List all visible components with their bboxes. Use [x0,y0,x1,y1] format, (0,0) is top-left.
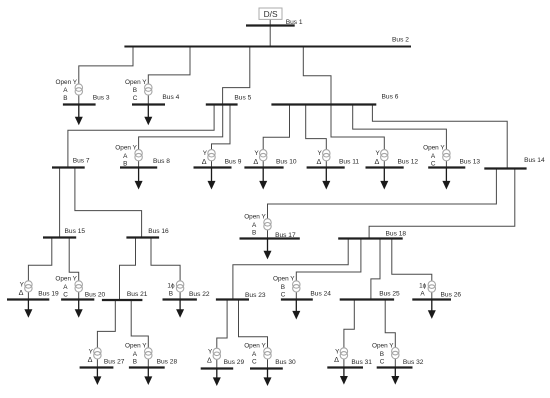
value label 1-phase winding + phase B at Bus 22 [167,283,175,298]
svg-text:Open Y: Open Y [273,276,295,283]
value label Open Y winding + phases AB at Bus 28 [125,343,147,366]
svg-text:B: B [63,95,67,102]
svg-text:Δ: Δ [334,355,339,364]
bus bar Bus 2 [124,46,411,48]
transformer T29 at Bus 29 [213,348,220,359]
bus bar Bus 22 [163,298,197,300]
svg-text:Bus 30: Bus 30 [275,359,296,366]
load arrow at Bus 24 [292,299,300,319]
svg-text:Bus 4: Bus 4 [162,94,179,101]
svg-text:A: A [431,153,436,160]
wire Bus23 to Bus29 [217,299,227,368]
svg-text:Bus 10: Bus 10 [276,159,297,166]
wire Bus25 to Bus31 [344,299,354,367]
svg-text:B: B [169,291,173,298]
wire Bus16 to Bus21 [120,238,136,300]
transformer T3 at Bus 3 [75,84,82,95]
load arrow at Bus 32 [391,367,399,384]
load arrow at Bus 9 [208,168,216,190]
svg-text:Bus 24: Bus 24 [310,290,331,297]
transformer T31 at Bus 31 [340,348,347,359]
svg-text:A: A [63,284,68,291]
transformer T13 at Bus 13 [443,150,450,161]
svg-text:Bus 5: Bus 5 [234,94,251,101]
bus bar Bus 16 [126,236,159,238]
wire Bus21 to Bus28 [131,300,148,368]
load arrow at Bus 29 [213,368,221,386]
wire Bus18 to Bus24 [296,239,361,300]
svg-text:Open Y: Open Y [244,343,266,350]
bus bar Bus 6 [271,103,376,105]
wire Bus5 to Bus7 [68,105,214,168]
bus bar Bus 28 [129,366,165,368]
bus bar Bus 21 [102,299,142,301]
value label Y-Delta winding at Bus 31 [334,348,340,364]
svg-text:Bus 8: Bus 8 [153,158,170,165]
transformer T19 at Bus 19 [25,281,32,292]
svg-text:C: C [133,95,138,102]
svg-text:1ϕ: 1ϕ [419,283,427,290]
load arrow at Bus 8 [135,168,143,190]
svg-text:Bus 1: Bus 1 [286,19,303,26]
bus bar Bus 10 [244,166,283,168]
svg-text:Bus 13: Bus 13 [460,159,481,166]
svg-text:Open Y: Open Y [372,342,394,349]
svg-text:Open Y: Open Y [125,343,147,350]
load arrow at Bus 3 [75,105,83,126]
transformer T22 at Bus 22 [176,281,183,292]
value label Y-Delta winding at Bus 10 [253,150,259,166]
value label Y-Delta winding at Bus 29 [207,349,213,365]
svg-text:Open Y: Open Y [423,145,445,152]
value label Open Y winding + phases AB at Bus 8 [115,145,137,168]
wire Bus15 to Bus20 [69,238,79,300]
wire Bus5 to Bus9 [212,105,231,168]
svg-text:Open Y: Open Y [244,214,266,221]
bus bar Bus 9 [194,166,232,168]
bus bar Bus 23 [216,298,249,300]
svg-text:B: B [380,351,384,358]
svg-text:B: B [133,359,137,366]
svg-text:Bus 3: Bus 3 [93,95,110,102]
transformer T26 at Bus 26 [428,281,435,292]
bus bar Bus 12 [366,166,404,168]
transformer T8 at Bus 8 [135,150,142,161]
svg-text:A: A [63,87,68,94]
bus bar Bus 32 [377,366,413,368]
svg-text:Δ: Δ [202,157,207,166]
wire Bus6 to Bus13 [353,105,447,168]
load arrow at Bus 11 [322,168,330,190]
svg-text:D/S: D/S [264,9,278,19]
wire Bus16 to Bus22 [151,238,180,300]
bus bar Bus 24 [281,298,313,300]
bus bar Bus 15 [43,236,76,238]
svg-text:Bus 7: Bus 7 [73,158,90,165]
value label Open Y winding + phases AC at Bus 30 [244,343,266,366]
transformer T10 at Bus 10 [260,150,267,161]
svg-text:Δ: Δ [19,288,24,297]
transformer T11 at Bus 11 [323,150,330,161]
wire Bus7 to Bus16 [75,168,142,238]
svg-text:Δ: Δ [88,355,93,364]
transformer T32 at Bus 32 [392,348,399,359]
svg-text:C: C [380,358,385,365]
bus bar Bus 25 [340,298,394,300]
wire Bus7 to Bus15 [59,168,61,238]
svg-text:A: A [133,351,138,358]
svg-text:Open Y: Open Y [56,79,78,86]
transformer T28 at Bus 28 [145,348,152,359]
bus bar Bus 30 [250,367,283,369]
svg-text:Bus 31: Bus 31 [351,359,372,366]
wire Bus6 to Bus10 [263,105,289,168]
bus bar Bus 11 [307,166,345,168]
load arrow at Bus 31 [340,367,348,384]
load arrow at Bus 30 [264,368,272,386]
svg-text:Δ: Δ [317,157,322,166]
feed D/S to Bus 2 [269,19,271,46]
wire Bus6 to Bus12 [331,105,384,168]
svg-text:Bus 23: Bus 23 [245,292,266,299]
svg-text:Bus 19: Bus 19 [38,290,59,297]
value label Y-Delta winding at Bus 11 [317,150,323,166]
value label Open Y winding + phases AC at Bus 20 [55,276,77,299]
wire Bus6 to Bus11 [306,105,327,168]
svg-text:C: C [281,292,286,299]
svg-text:Bus 20: Bus 20 [85,291,106,298]
svg-text:B: B [281,284,285,291]
bus bar Bus 26 [412,298,451,300]
bus bar Bus 14 [484,167,526,169]
load arrow at Bus 27 [93,368,101,385]
transformer T24 at Bus 24 [293,281,300,292]
load arrow at Bus 10 [259,168,267,190]
svg-text:A: A [420,291,425,298]
wire Bus14 to Bus17 [268,169,497,239]
load arrow at Bus 4 [144,105,152,126]
svg-text:Bus 28: Bus 28 [157,359,178,366]
svg-text:Bus 6: Bus 6 [382,93,399,100]
load arrow at Bus 20 [75,299,83,317]
value label Open Y winding + phases BC at Bus 32 [372,342,394,365]
svg-text:Bus 18: Bus 18 [386,231,407,238]
svg-text:Δ: Δ [253,157,258,166]
svg-text:Open Y: Open Y [125,79,147,86]
svg-text:Bus 12: Bus 12 [398,159,419,166]
svg-text:Bus 15: Bus 15 [65,228,86,235]
svg-text:Open Y: Open Y [55,276,77,283]
load arrow at Bus 22 [176,300,184,318]
wire Bus2 to Bus3 [79,47,133,105]
value label Open Y winding + phases AB at Bus 3 [56,79,78,102]
svg-text:Bus 17: Bus 17 [275,232,296,239]
svg-text:A: A [252,351,257,358]
wire Bus15 to Bus19 [28,238,51,300]
bus bar Bus 20 [61,298,94,300]
wire Bus5 to Bus8 [139,105,223,168]
svg-text:Bus 32: Bus 32 [403,359,424,366]
load arrow at Bus 13 [442,168,450,190]
transformer T12 at Bus 12 [381,150,388,161]
svg-text:Bus 25: Bus 25 [379,291,400,298]
svg-text:1ϕ: 1ϕ [167,283,175,290]
svg-text:C: C [63,292,68,299]
transformer T20 at Bus 20 [75,281,82,292]
bus bar Bus 27 [80,366,114,368]
bus bar Bus 4 [132,103,165,105]
wire Bus18 to Bus23 [233,239,348,300]
transformer T4 at Bus 4 [145,84,152,95]
svg-text:Bus 27: Bus 27 [104,359,125,366]
svg-text:A: A [123,153,128,160]
svg-text:Δ: Δ [375,157,380,166]
svg-text:C: C [431,161,436,168]
svg-text:Bus 11: Bus 11 [339,159,359,166]
bus bar Bus 7 [52,166,85,168]
load arrow at Bus 19 [24,299,32,317]
value label 1-phase winding + phase A at Bus 26 [419,283,427,298]
wire Bus18 to Bus26 [392,239,432,299]
svg-text:Bus 26: Bus 26 [441,291,462,298]
bus bar Bus 17 [240,237,300,239]
value label Open Y winding + phases BC at Bus 4 [125,79,147,102]
svg-text:Bus 2: Bus 2 [392,37,409,44]
value label Y-Delta winding at Bus 9 [202,150,208,166]
svg-text:Δ: Δ [207,356,212,365]
bus bar Bus 31 [327,366,363,368]
load arrow at Bus 26 [428,299,436,319]
wire Bus2 to Bus6 [303,47,331,105]
value label Y-Delta winding at Bus 12 [375,150,381,166]
transformer T27 at Bus 27 [94,348,101,359]
wire Bus23 to Bus30 [239,299,268,368]
svg-text:Bus 29: Bus 29 [224,359,245,366]
transformer T9 at Bus 9 [208,150,215,161]
svg-text:Bus 16: Bus 16 [148,228,169,235]
svg-text:C: C [252,359,257,366]
value label Y-Delta winding at Bus 27 [88,348,94,364]
bus bar Bus 29 [201,367,234,369]
wire Bus25 to Bus32 [385,299,395,367]
load arrow at Bus 28 [144,368,152,385]
wire Bus21 to Bus27 [97,300,115,368]
value label Open Y winding + phases BC at Bus 24 [273,276,295,299]
substation source D/S [259,8,282,19]
svg-text:Bus 21: Bus 21 [127,291,148,298]
bus bar Bus 18 [338,237,403,239]
wire Bus18 to Bus25 [371,239,380,300]
bus bar Bus 19 [7,298,49,300]
bus bar Bus 1 [246,24,295,26]
load arrow at Bus 12 [380,168,388,190]
wire Bus2 to Bus5 [223,47,250,105]
bus bar Bus 8 [120,166,157,168]
svg-text:Open Y: Open Y [115,145,137,152]
svg-text:A: A [252,222,257,229]
svg-text:Bus 14: Bus 14 [524,157,545,164]
load arrow at Bus 17 [264,239,272,260]
wire Bus14 to Bus18 [369,169,515,239]
bus bar Bus 5 [206,103,238,105]
svg-text:B: B [252,230,256,237]
svg-text:Bus 9: Bus 9 [225,159,242,166]
svg-text:Bus 22: Bus 22 [189,291,210,298]
wire Bus2 to Bus4 [148,47,190,105]
transformer T17 at Bus 17 [264,219,271,230]
value label Open Y winding + phases AB at Bus 17 [244,214,266,237]
wire Bus6 to Bus14 [372,105,507,169]
svg-text:B: B [123,161,127,168]
value label Open Y winding + phases AC at Bus 13 [423,145,445,168]
value label Y-Delta winding at Bus 19 [19,281,25,297]
svg-text:B: B [133,87,137,94]
bus bar Bus 13 [428,166,465,168]
bus bar Bus 3 [63,103,96,105]
transformer T30 at Bus 30 [264,348,271,359]
